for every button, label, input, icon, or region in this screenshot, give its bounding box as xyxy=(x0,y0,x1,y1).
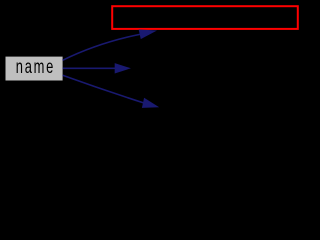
node box "name" xyxy=(6,57,63,81)
arrowhead: bottom edge xyxy=(142,98,159,108)
svg-text:name: name xyxy=(16,56,55,77)
arrowhead: middle edge xyxy=(115,63,131,73)
arrowhead: top edge xyxy=(139,30,157,40)
node label "name" xyxy=(16,56,55,77)
wire: bottom edge shaft xyxy=(63,75,144,103)
wire: middle edge shaft xyxy=(63,67,117,69)
wire: top edge shaft xyxy=(63,34,141,60)
red node (truncated, empty/black interior) xyxy=(112,6,298,29)
